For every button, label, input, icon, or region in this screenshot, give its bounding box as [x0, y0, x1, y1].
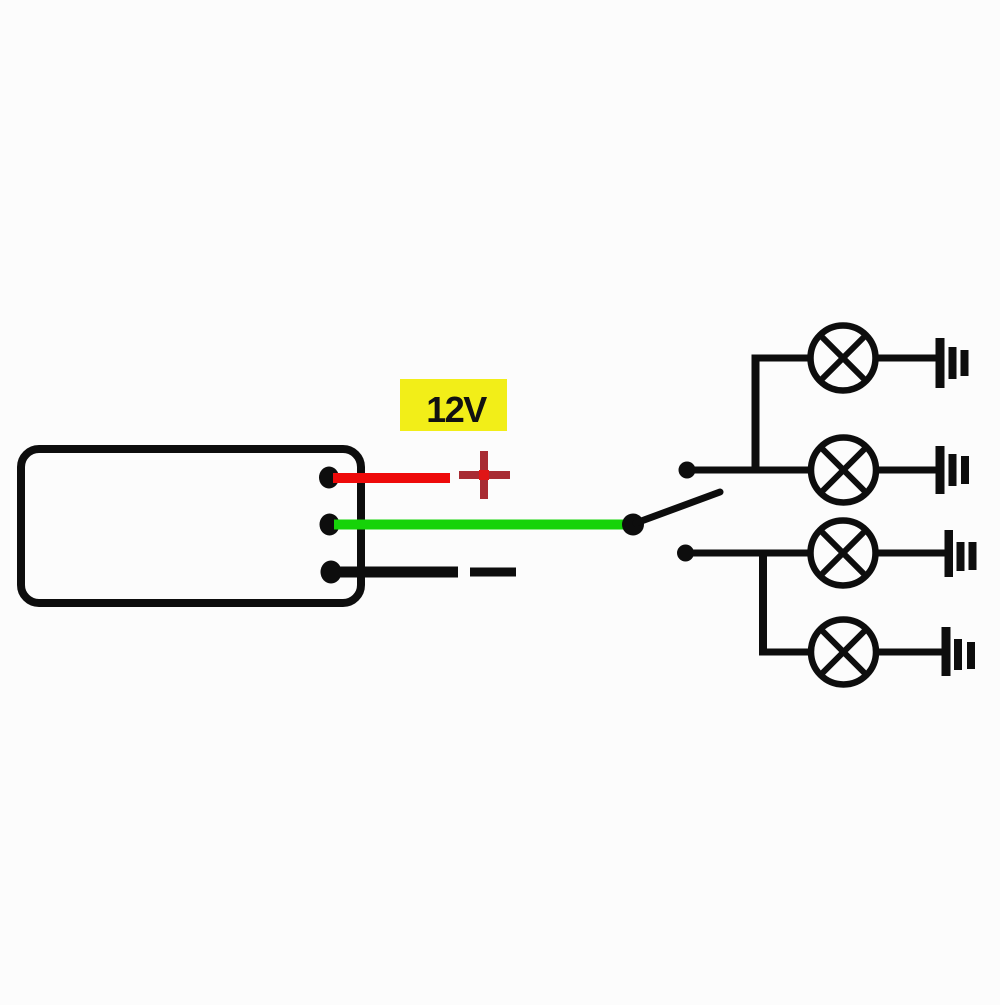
lamp L4	[811, 620, 876, 685]
ground G1	[936, 338, 969, 388]
wire ground (black)	[335, 567, 458, 578]
plus symbol	[459, 451, 510, 499]
lamp L3	[811, 521, 876, 586]
wire upper branch vertical	[752, 355, 760, 471]
wire output (green)	[334, 520, 640, 530]
switch SW1 pivot	[622, 514, 644, 536]
wire lower branch vertical	[759, 553, 767, 656]
wire lamp L2 to ground	[876, 467, 936, 474]
minus symbol	[470, 568, 516, 577]
switch SW1 lever	[636, 492, 720, 523]
wire bottom branch horizontal	[760, 649, 813, 656]
svg-text:12V: 12V	[426, 389, 487, 430]
wire +12V (red)	[333, 473, 450, 483]
terminal dot output	[320, 514, 340, 536]
lamp L1	[811, 326, 876, 391]
label 12V	[400, 379, 507, 431]
wire lamp L3 to ground	[876, 550, 945, 557]
ground G4	[942, 627, 976, 676]
switch contact lower	[677, 545, 694, 562]
wire lamp L4 to ground	[876, 649, 942, 656]
wire lamp L1 to ground	[876, 355, 936, 362]
wire lower contact to lamps	[689, 550, 812, 557]
switch contact upper	[679, 462, 696, 479]
control box U1	[21, 449, 361, 603]
terminal dot - (negative)	[321, 561, 342, 584]
ground G2	[936, 446, 970, 494]
wire top branch horizontal	[752, 355, 812, 362]
terminal dot + (positive)	[319, 467, 339, 489]
lamp L2	[811, 438, 876, 503]
ground G3	[945, 530, 977, 577]
wire upper contact to lamps	[690, 467, 812, 474]
